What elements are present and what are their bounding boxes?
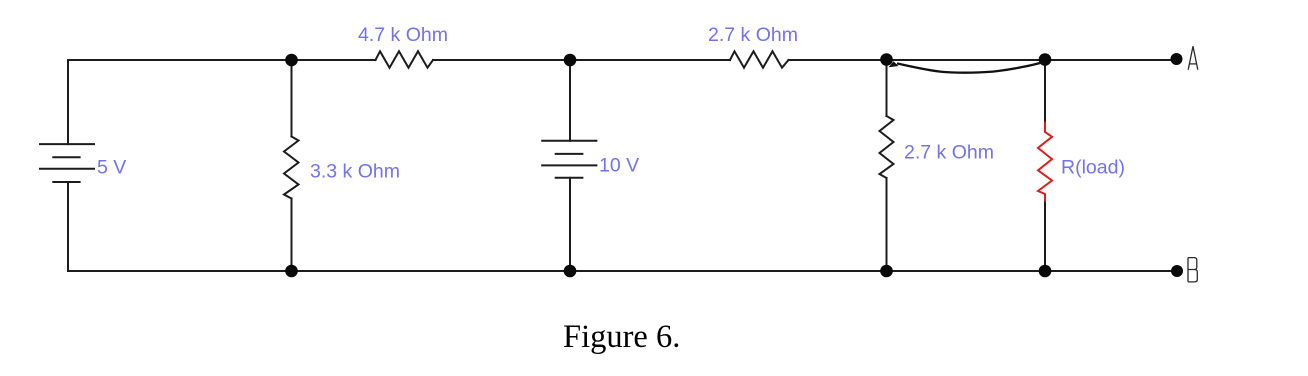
node junction top 3	[880, 53, 893, 66]
wire bottom rail	[68, 270, 1177, 272]
wire top rail middle segment	[433, 59, 730, 61]
battery V1 5 V plate short bottom	[53, 181, 79, 183]
battery V1 5 V plate long top	[40, 143, 94, 145]
node junction bottom 1	[285, 265, 298, 278]
node junction top 1	[285, 54, 298, 67]
wire branch 2.7k vertical upper	[886, 60, 888, 116]
wire branch 10V lower	[569, 178, 571, 271]
annotation curve arrow from node 4 to node 3	[897, 62, 1044, 73]
battery V1 5 V plate short	[53, 156, 79, 158]
svg-text:5 V: 5 V	[97, 157, 126, 179]
resistor R4 2.7 k Ohm (vertical zigzag)	[880, 116, 894, 178]
node junction bottom 3	[880, 265, 893, 278]
battery V1 5 V plate long lower	[40, 168, 94, 170]
svg-text:Figure 6.: Figure 6.	[563, 319, 680, 355]
node junction bottom 2	[564, 265, 577, 278]
battery V2 10 V plate short	[556, 153, 583, 155]
resistor R1 4.7 k Ohm (horizontal zigzag)	[376, 51, 434, 67]
node label A	[1188, 46, 1198, 70]
annotation arrowhead at node 3	[889, 61, 899, 67]
terminal B dot	[1171, 265, 1183, 277]
wire top rail right segment to terminal A	[789, 59, 1178, 61]
svg-text:10 V: 10 V	[599, 155, 639, 177]
resistor R3 3.3 k Ohm (vertical zigzag)	[284, 137, 299, 199]
battery V2 10 V plate long top	[542, 140, 596, 142]
svg-text:R(load): R(load)	[1061, 156, 1125, 178]
wire branch R(load) lower	[1044, 201, 1046, 272]
terminal A dot	[1171, 53, 1183, 65]
wire branch 10V upper	[569, 60, 571, 141]
node junction bottom 4	[1039, 265, 1052, 278]
resistor R5 R(load) (red vertical zigzag)	[1038, 123, 1052, 201]
svg-text:4.7 k Ohm: 4.7 k Ohm	[358, 24, 448, 46]
battery V2 10 V plate long lower	[542, 164, 596, 166]
node junction top 4	[1039, 53, 1052, 66]
svg-text:2.7 k Ohm: 2.7 k Ohm	[708, 24, 798, 46]
node junction top 2	[564, 54, 577, 67]
battery V2 10 V plate short bottom	[556, 177, 583, 179]
wire left rail upper	[67, 60, 69, 144]
wire top rail left segment	[68, 59, 376, 61]
resistor R2 2.7 k Ohm (horizontal zigzag)	[730, 51, 789, 67]
svg-text:2.7 k Ohm: 2.7 k Ohm	[904, 142, 994, 164]
wire branch 2.7k vertical lower	[886, 178, 888, 271]
svg-text:3.3 k Ohm: 3.3 k Ohm	[310, 161, 400, 183]
wire branch R(load) upper	[1044, 60, 1046, 123]
wire branch 3.3k lower	[291, 199, 293, 272]
wire branch 3.3k upper	[291, 60, 293, 137]
wire left rail lower	[67, 182, 69, 271]
node label B	[1188, 258, 1197, 282]
